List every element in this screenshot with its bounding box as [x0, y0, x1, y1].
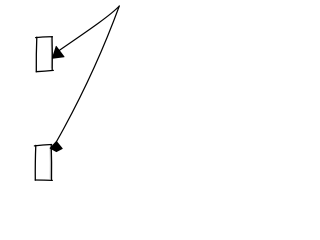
arrowhead 1 [52, 46, 64, 58]
node box bottom [34, 145, 52, 181]
edge 2 shaft [57, 6, 120, 142]
arrowhead 2 [50, 141, 62, 151]
node box top [36, 37, 54, 72]
edge 1 shaft [60, 6, 120, 50]
